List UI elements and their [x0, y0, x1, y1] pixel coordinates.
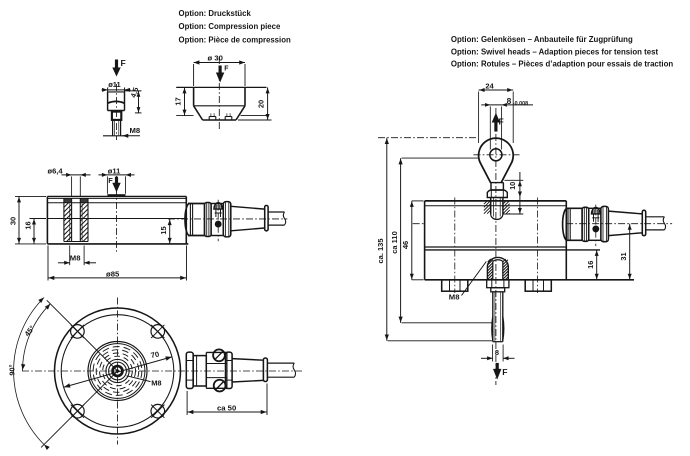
bottom hatched thread pocket: [487, 257, 508, 279]
centerlines bolt axes right drawing: [455, 198, 538, 294]
right hatched hole column: [80, 198, 88, 241]
leader M8 bottom view: [127, 376, 162, 388]
centerline horizontal bottom view: [22, 370, 302, 372]
extension lines lower rod: [388, 323, 493, 341]
dimension o11 piece1: [102, 80, 131, 92]
top stud into body: [491, 198, 503, 220]
dimension 8 lower rod: [481, 345, 515, 362]
piece2 top surface line: [176, 86, 266, 88]
centerline piece2: [218, 57, 220, 130]
top plate line right drawing: [425, 205, 567, 207]
diagonal 45deg lower-left: [41, 371, 117, 447]
svg-text:24: 24: [485, 82, 494, 91]
dimension o11 body: [99, 167, 135, 194]
center hub thread ring M8: [113, 366, 123, 376]
neck collar below head: [491, 183, 503, 190]
dimension 31 right drawing: [619, 224, 632, 280]
dimension o6.4: [48, 167, 91, 197]
svg-text:8: 8: [495, 348, 499, 357]
dimension 16 right drawing: [586, 250, 599, 280]
body outline right drawing: [425, 201, 634, 280]
load button side view: [107, 194, 125, 196]
centerline connector axis left tick: [413, 223, 425, 225]
svg-text:31: 31: [619, 252, 628, 260]
M8 thread lines in hole: [70, 204, 82, 242]
centerline vertical bottom view: [117, 298, 119, 445]
svg-text:30: 30: [9, 217, 18, 225]
dimension M8 below body: [58, 246, 96, 266]
svg-text:17: 17: [174, 97, 183, 105]
svg-text:F: F: [502, 367, 507, 377]
svg-text:Option: Druckstück: Option: Druckstück: [179, 9, 252, 18]
bottom center nut: [487, 280, 509, 292]
dimension 16: [24, 219, 47, 244]
svg-text:10: 10: [508, 182, 517, 190]
svg-text:M8: M8: [151, 379, 161, 388]
svg-text:ca 110: ca 110: [390, 231, 399, 254]
diagonal 45deg upper-left: [47, 300, 118, 371]
svg-text:46: 46: [401, 241, 410, 249]
dimension ca 135: [376, 138, 389, 341]
svg-text:F: F: [224, 66, 228, 73]
dimension 4.5 piece1: [125, 86, 142, 113]
hole bottom line: [64, 241, 88, 243]
svg-text:M8: M8: [130, 126, 141, 135]
svg-text:ca. 135: ca. 135: [376, 238, 385, 263]
svg-text:ø11: ø11: [108, 80, 121, 89]
svg-text:-0.008: -0.008: [513, 101, 528, 107]
bolt circle bottom view: [61, 315, 174, 428]
membrane circles hub: [88, 342, 147, 401]
piece1 base line and M8 label: [103, 126, 141, 138]
dimension 10 top stud: [503, 172, 524, 214]
bolt holes bottom view: [71, 325, 85, 339]
extension lines head left: [378, 138, 479, 158]
svg-text:16: 16: [586, 261, 595, 269]
svg-text:Option: Compression piece: Option: Compression piece: [179, 22, 281, 31]
svg-text:16: 16: [24, 221, 33, 229]
svg-text:ø6,4: ø6,4: [48, 167, 64, 176]
dimension 24 head: [479, 82, 514, 144]
svg-text:ca 50: ca 50: [217, 403, 236, 412]
connector ring2 plan view: [226, 352, 233, 388]
connector flange plan view: [263, 358, 267, 382]
centerline vertical right drawing: [495, 108, 497, 385]
foot nut left right-drawing: [442, 280, 468, 291]
svg-text:15: 15: [159, 226, 168, 234]
piece2 bottom notches: [209, 113, 232, 120]
angle arc 90deg: [8, 298, 50, 451]
svg-text:Option: Gelenkösen – Anbauteil: Option: Gelenkösen – Anbauteile für Zugp…: [451, 35, 633, 44]
svg-text:90°: 90°: [8, 364, 17, 375]
body outline side view: [47, 196, 188, 244]
piece1 cap body: [108, 92, 125, 111]
dimension 8 -0.008 head hole: [481, 96, 533, 149]
connector side view right drawing: [563, 205, 673, 247]
connector plan view: [186, 352, 206, 388]
connector horn plan view: [232, 359, 263, 382]
svg-text:F: F: [121, 58, 126, 68]
svg-text:8: 8: [507, 96, 512, 106]
dimension ca 110: [390, 158, 403, 323]
left hatched hole column: [64, 198, 72, 241]
force arrow F piece1: [112, 58, 125, 77]
foot nut right right-drawing: [525, 280, 551, 291]
text Option Gelenkoesen: [451, 35, 673, 69]
dimension ca 50: [187, 384, 267, 416]
centerline piece1: [116, 84, 118, 140]
svg-text:M8: M8: [449, 292, 460, 301]
piece2 groove reference line: [176, 115, 266, 117]
outer circle bottom view: [55, 308, 181, 434]
svg-text:ø11: ø11: [108, 167, 121, 176]
lower threaded rod: [492, 292, 504, 342]
svg-text:ø 30: ø 30: [208, 54, 223, 63]
svg-text:20: 20: [257, 100, 266, 108]
dimension o30 piece2: [194, 54, 245, 86]
piece2 cap outline: [194, 87, 245, 120]
hatch around top stud: [484, 201, 510, 214]
mid seam lines right drawing: [425, 247, 600, 250]
swivel head teardrop: [474, 138, 520, 183]
svg-text:Option: Swivel heads – Adaptio: Option: Swivel heads – Adaption pieces f…: [451, 47, 659, 56]
svg-text:ø85: ø85: [106, 269, 120, 278]
dimension o85: [48, 246, 187, 281]
svg-text:M8: M8: [70, 253, 81, 262]
text Option Druckstueck: [179, 9, 291, 44]
piece1 threaded stem: [112, 112, 121, 136]
dimension 46: [401, 201, 424, 280]
svg-text:F: F: [108, 176, 113, 185]
hex nut on top stud: [487, 190, 507, 198]
dimension 17 piece2: [174, 87, 187, 115]
dimension 20 piece2: [238, 87, 272, 120]
dimension 30: [9, 196, 47, 244]
cable plan view: [267, 363, 295, 377]
force arrow F up: [492, 113, 504, 132]
dimension 70 bolt circle: [64, 349, 172, 387]
svg-text:Option: Rotules – Pièces d’ada: Option: Rotules – Pièces d’adaption pour…: [451, 60, 673, 69]
connector screw section plan view: [206, 349, 227, 391]
force arrow F down right drawing: [493, 363, 507, 380]
svg-text:Option: Pièce de compression: Option: Pièce de compression: [179, 36, 291, 45]
connector side view middle drawing: [168, 200, 287, 242]
force arrow F body: [108, 176, 120, 192]
angle arc 45deg: [21, 304, 50, 371]
top plate lines side view: [47, 198, 186, 202]
body mid seam line: [47, 218, 186, 220]
leader M8 right drawing: [449, 262, 487, 302]
centerline body vertical: [116, 176, 118, 252]
force arrow F piece2: [216, 66, 229, 83]
dimension 15: [159, 219, 172, 244]
